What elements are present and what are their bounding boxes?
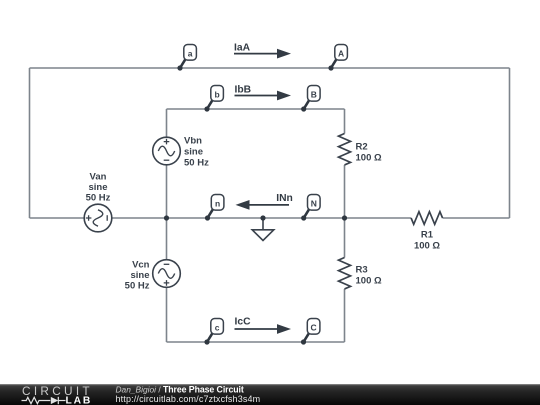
svg-text:c: c: [215, 323, 220, 333]
node B flag: [301, 86, 320, 112]
svg-text:sine: sine: [184, 147, 203, 158]
svg-text:R3: R3: [356, 265, 368, 276]
wire middle left to Van: [30, 217, 85, 219]
voltage source Van: [84, 204, 112, 232]
wire B corner to R2 top: [344, 109, 346, 134]
junction ground: [260, 215, 265, 220]
voltage source Vbn: [153, 137, 181, 165]
svg-text:50 Hz: 50 Hz: [184, 158, 209, 169]
svg-text:Vcn: Vcn: [132, 260, 150, 271]
footer bar: [0, 384, 540, 405]
svg-text:50 Hz: 50 Hz: [86, 193, 111, 204]
svg-text:N: N: [311, 199, 317, 209]
label R1 100ohm: [414, 230, 440, 252]
wire n junction to Vcn top: [166, 218, 168, 260]
footer logo squiggle resistor-diode: [22, 397, 66, 404]
wire R3 bottom to C wire: [344, 289, 346, 342]
svg-text:b: b: [214, 90, 219, 100]
current arrow IcC: [235, 317, 292, 334]
junction R2-R3-n: [342, 215, 347, 220]
voltage source Vcn: [153, 260, 181, 288]
wire Vbn bottom to n wire: [166, 165, 168, 218]
resistor R3: [339, 258, 351, 289]
svg-text:R2: R2: [356, 142, 368, 153]
svg-text:100 Ω: 100 Ω: [356, 153, 382, 164]
svg-text:B: B: [311, 90, 317, 100]
node N flag: [301, 195, 320, 221]
node a flag: [177, 45, 196, 71]
svg-text:INn: INn: [276, 193, 293, 204]
label Van sine 50 Hz: [86, 172, 111, 204]
resistor R2: [339, 134, 351, 165]
svg-text:sine: sine: [88, 182, 107, 193]
current arrow IaA: [234, 43, 291, 59]
wire R2R3 junction to R3 top: [344, 218, 346, 258]
wire top a-A: [30, 67, 510, 69]
wire Van to R1: [112, 217, 411, 219]
current arrow IbB: [235, 84, 292, 100]
svg-text:100 Ω: 100 Ω: [356, 276, 382, 287]
wire b-B horizontal: [167, 108, 345, 110]
node C flag: [301, 319, 320, 345]
svg-text:50 Hz: 50 Hz: [125, 281, 150, 292]
node c flag: [204, 319, 223, 345]
node A flag: [328, 45, 347, 71]
wire bottom c-C: [167, 341, 345, 343]
svg-text:http://circuitlab.com/c7ztxcfs: http://circuitlab.com/c7ztxcfsh3s4m: [116, 394, 261, 404]
wire Vcn bottom to c wire: [166, 287, 168, 342]
svg-text:A: A: [338, 49, 344, 59]
footer bar top highlight: [0, 384, 540, 385]
svg-text:R1: R1: [421, 230, 434, 241]
svg-text:IbB: IbB: [235, 84, 252, 95]
label R3 100ohm: [356, 265, 382, 287]
svg-text:a: a: [188, 49, 193, 59]
node n flag: [205, 195, 224, 221]
svg-text:IaA: IaA: [234, 43, 251, 54]
svg-text:n: n: [215, 199, 220, 209]
node b flag: [204, 86, 223, 112]
wire right vertical: [509, 68, 511, 218]
label R2 100ohm: [356, 142, 382, 164]
svg-text:Vbn: Vbn: [184, 136, 202, 147]
wire R2 bottom to n wire: [344, 165, 346, 218]
current arrow INn: [236, 193, 293, 210]
label Vbn sine 50 Hz: [184, 136, 209, 169]
svg-text:C: C: [311, 323, 317, 333]
svg-text:100 Ω: 100 Ω: [414, 241, 440, 252]
wire b corner to Vbn top: [166, 109, 168, 137]
wire R1 to right: [443, 217, 510, 219]
junction Vbn-Vcn-n: [164, 215, 169, 220]
svg-text:IcC: IcC: [235, 317, 252, 328]
wire left vertical: [29, 68, 31, 218]
svg-text:LAB: LAB: [66, 396, 93, 405]
svg-text:Van: Van: [90, 172, 107, 183]
svg-text:sine: sine: [130, 270, 149, 281]
resistor R1: [411, 212, 442, 225]
label Vcn sine 50 Hz: [125, 260, 150, 292]
ground: [252, 218, 274, 241]
